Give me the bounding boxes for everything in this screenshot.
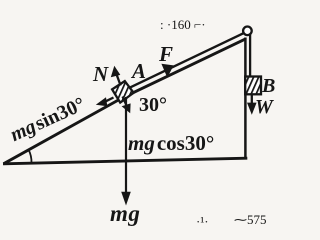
svg-text:: ·160 ⌐·: : ·160 ⌐· xyxy=(160,17,206,32)
svg-text:mg: mg xyxy=(110,201,140,226)
block A (hatched, on incline) xyxy=(112,81,134,103)
svg-text:F: F xyxy=(158,42,173,66)
mg sin30 arrow (down the incline) xyxy=(106,98,114,102)
svg-text:A: A xyxy=(130,59,146,83)
normal force N arrow xyxy=(117,75,121,86)
svg-text:30°: 30° xyxy=(139,94,167,116)
svg-text:N: N xyxy=(92,62,109,86)
arrowhead F on string xyxy=(161,64,173,78)
mg vertical line and arrow xyxy=(125,97,127,194)
svg-text:B: B xyxy=(261,75,275,97)
svg-text:·¹·: ·¹· xyxy=(196,214,209,229)
weight W arrow under block B xyxy=(251,95,253,104)
ghost bleed-through text top xyxy=(160,17,206,32)
mg cos30 short arrow (perpendicular into incline) xyxy=(123,97,127,106)
label mg sin30 (rotated along incline) xyxy=(7,93,88,146)
angle arc at left vertex xyxy=(29,150,32,163)
svg-text:W: W xyxy=(255,96,274,118)
ghost bleed-through text bottom right xyxy=(196,212,267,229)
pulley xyxy=(243,27,252,36)
string vertical segment to block B xyxy=(249,32,251,77)
svg-text:⁓575: ⁓575 xyxy=(234,212,267,227)
string along incline xyxy=(124,33,244,90)
right vertical side of triangle xyxy=(244,38,247,159)
svg-text:mgcos30°: mgcos30° xyxy=(128,131,214,155)
base of triangle xyxy=(3,158,247,164)
block B (hatched, hanging) xyxy=(245,77,261,95)
incline (hypotenuse) xyxy=(4,39,246,164)
